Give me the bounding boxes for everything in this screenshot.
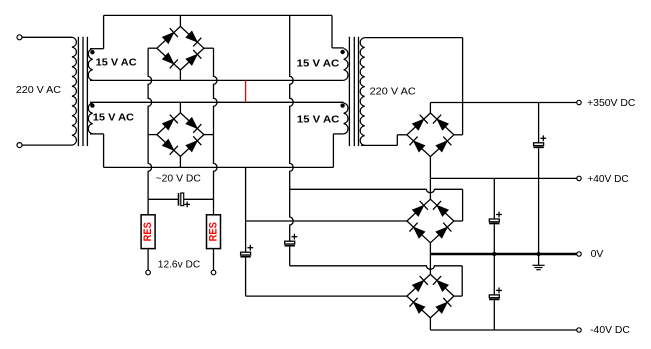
wire top rail: [104, 14, 332, 16]
wire +350V rail: [430, 102, 576, 104]
wire rail 15V lower: [90, 101, 344, 103]
wire +40V rail: [430, 177, 576, 179]
wire B1 bottom stub: [179, 70, 181, 80]
svg-text:+40V DC: +40V DC: [587, 173, 629, 185]
wire B5 top stub: [429, 254, 431, 274]
wire to B5 right vertex: [290, 266, 463, 270]
phase dot T1 sec1: [90, 50, 94, 54]
wire T2 primary top to B3 right: [365, 37, 463, 39]
capacitor C3: [489, 295, 499, 298]
wire right vertical (B1 to cap wire): [214, 48, 218, 199]
svg-text:15 V AC: 15 V AC: [96, 56, 137, 68]
capacitor C1: [178, 193, 180, 206]
wire B2 left vertex link: [148, 134, 157, 136]
wire rail 15V upper: [90, 79, 344, 81]
wire left resistor top stub: [147, 199, 149, 215]
svg-text:0V: 0V: [591, 248, 604, 260]
transformer T1 primary terminal (top): [17, 35, 22, 40]
wire cap C2 vertical bottom: [245, 258, 247, 297]
wire B2 top stub: [179, 102, 181, 113]
bridge rectifier B4: [407, 199, 454, 243]
ground symbol: [532, 264, 544, 266]
junction dot 0V/x538: [537, 252, 541, 256]
wire cap chain x494 mid: [493, 224, 495, 295]
red series link: [245, 80, 247, 102]
capacitor C4: [534, 143, 544, 146]
svg-text:12.6v DC: 12.6v DC: [158, 259, 201, 271]
wire right resistor top stub: [213, 199, 215, 215]
wire cap chain x538 bottom: [538, 148, 540, 265]
wire cap C1 left: [148, 198, 178, 200]
wire B4 left feed: [246, 220, 407, 222]
transformer T2 primary winding: [360, 38, 364, 146]
wire T1 primary top: [22, 36, 72, 38]
svg-text:220 V AC: 220 V AC: [16, 84, 61, 96]
svg-text:220 V AC: 220 V AC: [370, 86, 417, 98]
terminal -40V: [577, 328, 581, 332]
wire top rail elbow to T2 sec1: [331, 15, 333, 48]
wire T2 primary bottom to B3 left: [361, 144, 397, 146]
svg-text:RES: RES: [208, 222, 220, 242]
capacitor C2: [241, 252, 251, 255]
wire cap chain x494 top: [493, 178, 495, 219]
bridge rectifier B3: [407, 113, 454, 157]
phase dot T2 sec1: [340, 50, 344, 54]
transformer T2 secondary 1 winding: [344, 49, 348, 81]
wire cap chain x494 bottom: [493, 300, 495, 330]
wire B1 left vertex link: [148, 47, 157, 49]
terminal 0V: [577, 252, 581, 256]
wire mid vertical from top rail: [290, 15, 294, 241]
wire B3 bottom to B4 top: [429, 157, 431, 200]
wire T1 primary bottom: [22, 144, 72, 146]
transformer T1 primary winding: [72, 37, 76, 145]
wire B2 right vertex link: [204, 134, 214, 136]
wire B5 bottom stub: [429, 318, 431, 330]
transformer T1 secondary 1 winding: [88, 49, 92, 81]
svg-text:-40V DC: -40V DC: [590, 324, 630, 336]
transformer T2 secondary 2 winding: [344, 103, 348, 134]
wire T1 sec1 top to top rail: [90, 48, 104, 50]
resistor RES (right): [207, 215, 221, 249]
capacitor C6: [285, 241, 295, 244]
wire 0V rail: [430, 253, 576, 255]
terminal +350V: [577, 100, 581, 104]
wire B2 bottom stub: [179, 156, 181, 167]
wire B3 top stub: [429, 103, 431, 114]
terminal 12.6V right: [211, 270, 216, 275]
svg-text:15 V AC: 15 V AC: [93, 111, 135, 123]
terminal +40V: [577, 176, 581, 180]
phase dot T1 sec2: [90, 103, 94, 107]
wire cap C1 right: [184, 198, 214, 200]
phase dot T2 sec2: [340, 103, 344, 107]
svg-text:15 V AC: 15 V AC: [297, 57, 340, 69]
wire right resistor bottom stub: [213, 249, 215, 271]
wire cap chain x538 top: [538, 103, 540, 143]
wire B1 right vertex link: [204, 47, 214, 49]
resistor RES (left): [141, 215, 155, 249]
capacitor C5: [489, 219, 499, 222]
wire mid vertical below C6: [289, 247, 291, 266]
wire T2 sec2 bottom elbow: [333, 133, 343, 135]
bridge rectifier B2: [157, 113, 204, 157]
wire T1 sec2 bottom elbow: [90, 133, 104, 135]
svg-text:+350V DC: +350V DC: [587, 97, 636, 109]
transformer T1 core: [77, 37, 79, 146]
wire B4 bottom stub: [429, 243, 431, 254]
wire B1 top stub: [179, 15, 181, 26]
wire -40V rail: [430, 329, 576, 331]
transformer T1 primary terminal (bottom): [17, 143, 22, 148]
transformer T2 core: [348, 37, 350, 146]
wire rail ~20V: [104, 166, 334, 168]
bridge rectifier B1: [157, 26, 204, 70]
bridge rectifier B5: [407, 274, 454, 318]
wire to B5 left vertex: [246, 295, 407, 297]
svg-text:~20 V DC: ~20 V DC: [156, 172, 202, 184]
junction dot 0V/x494: [492, 252, 496, 256]
transformer T1 secondary 2 winding: [88, 103, 92, 134]
wire left resistor bottom stub: [147, 249, 149, 271]
wire B4 right feed: [290, 189, 463, 193]
terminal 12.6V left: [146, 270, 151, 275]
svg-text:15 V AC: 15 V AC: [297, 113, 340, 125]
wire cap C2 vertical top: [245, 167, 247, 252]
wire left vertical (B1 to cap wire): [148, 48, 152, 199]
svg-text:RES: RES: [142, 222, 154, 242]
